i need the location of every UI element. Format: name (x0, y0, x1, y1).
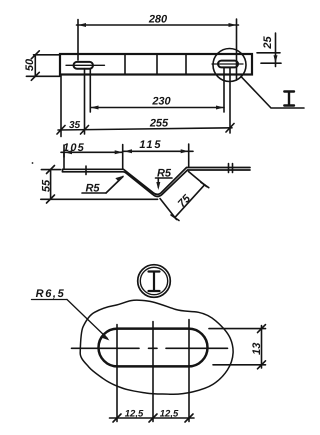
left slot (plan) (74, 62, 94, 69)
svg-text:R5: R5 (85, 182, 100, 194)
bar outline (plan view) (60, 54, 252, 75)
radius label R5 right (156, 178, 173, 190)
left slot centerline (66, 64, 105, 66)
svg-text:75: 75 (176, 192, 194, 210)
slot position tick left (profile) (85, 166, 87, 175)
dimension 12,5 12,5 (110, 414, 195, 422)
svg-text:35: 35 (69, 120, 81, 131)
dimension 105 (61, 145, 123, 170)
radius label R6,5 (32, 300, 110, 341)
speck (32, 162, 34, 164)
detail slot centerline (72, 347, 228, 349)
right slot centerline (212, 63, 243, 65)
svg-text:105: 105 (63, 142, 85, 154)
dimension 280 (77, 19, 239, 80)
profile strip (section view) (63, 168, 251, 197)
detail circle I (213, 49, 246, 82)
svg-text:R6,5: R6,5 (36, 288, 66, 300)
svg-text:280: 280 (148, 13, 168, 25)
bend line right (plan) (185, 54, 187, 75)
bend line left (plan) (124, 54, 126, 75)
detail slot (enlarged) (99, 329, 208, 367)
dimension 75 (160, 172, 209, 221)
svg-text:50: 50 (24, 58, 36, 71)
dimension 55 (41, 166, 158, 204)
svg-text:230: 230 (151, 96, 171, 108)
dimension 230 (90, 68, 224, 112)
svg-text:255: 255 (149, 118, 169, 130)
dimension 115 (123, 144, 193, 167)
detail center line vertical (152, 322, 154, 422)
label I (plan) (284, 92, 294, 106)
svg-text:25: 25 (262, 36, 274, 50)
detail blob outline (80, 300, 233, 394)
svg-text:12,5: 12,5 (160, 409, 179, 420)
dimension 50 (26, 51, 60, 81)
bend line center (plan) (156, 54, 158, 75)
right slot (plan) (218, 61, 238, 68)
slot position ticks right (profile) (228, 164, 230, 173)
svg-text:55: 55 (40, 179, 52, 192)
leader to label I (241, 77, 304, 109)
dimension 255 and 35 (57, 67, 234, 136)
detail extension line right (12.5) (188, 320, 190, 422)
svg-text:R5: R5 (157, 167, 172, 179)
detail extension line left (12.5) (116, 325, 118, 422)
dimension 25 (257, 33, 281, 67)
detail label circled I (138, 265, 171, 298)
dimension 13 (209, 325, 266, 369)
svg-text:115: 115 (139, 139, 162, 151)
radius label R5 left (82, 176, 124, 193)
svg-text:12,5: 12,5 (125, 409, 144, 420)
svg-text:13: 13 (251, 343, 263, 355)
